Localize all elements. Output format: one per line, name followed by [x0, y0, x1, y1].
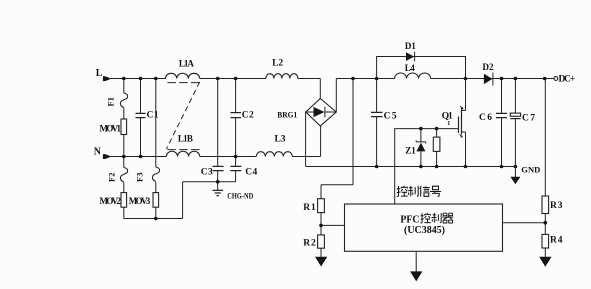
- svg-text:C4: C4: [245, 168, 257, 178]
- svg-text:R3: R3: [550, 201, 563, 211]
- svg-text:1: 1: [447, 121, 450, 127]
- svg-text:L4: L4: [405, 63, 416, 73]
- svg-text:R1: R1: [303, 203, 316, 213]
- svg-text:(UC3845): (UC3845): [404, 225, 445, 236]
- svg-text:C2: C2: [242, 110, 254, 120]
- svg-text:C6: C6: [479, 113, 492, 123]
- svg-text:F3: F3: [135, 173, 145, 182]
- svg-text:GND: GND: [521, 164, 540, 174]
- svg-text:CHG-ND: CHG-ND: [227, 190, 253, 200]
- svg-text:L3: L3: [275, 135, 286, 145]
- svg-text:L1B: L1B: [178, 134, 193, 144]
- svg-text:C5: C5: [384, 112, 397, 122]
- svg-text:R2: R2: [303, 239, 316, 249]
- svg-text:N: N: [94, 147, 102, 158]
- svg-text:L2: L2: [272, 58, 283, 68]
- svg-text:Z1: Z1: [405, 146, 416, 156]
- svg-text:MOV3: MOV3: [129, 196, 151, 206]
- svg-text:MOV2: MOV2: [100, 196, 122, 206]
- svg-text:C7: C7: [522, 114, 535, 124]
- svg-text:D2: D2: [483, 62, 495, 72]
- svg-text:L: L: [96, 68, 103, 79]
- svg-text:C1: C1: [147, 110, 159, 120]
- svg-text:PFC: PFC: [400, 215, 419, 226]
- svg-text:D1: D1: [405, 41, 417, 51]
- svg-text:L1A: L1A: [179, 59, 195, 69]
- svg-text:BRG1: BRG1: [277, 110, 297, 120]
- svg-text:F1: F1: [106, 97, 116, 106]
- svg-text:MOV1: MOV1: [100, 123, 122, 133]
- svg-text:DC+: DC+: [559, 74, 576, 84]
- svg-text:R4: R4: [550, 236, 563, 246]
- svg-text:C3: C3: [201, 168, 213, 178]
- svg-text:F2: F2: [107, 173, 117, 182]
